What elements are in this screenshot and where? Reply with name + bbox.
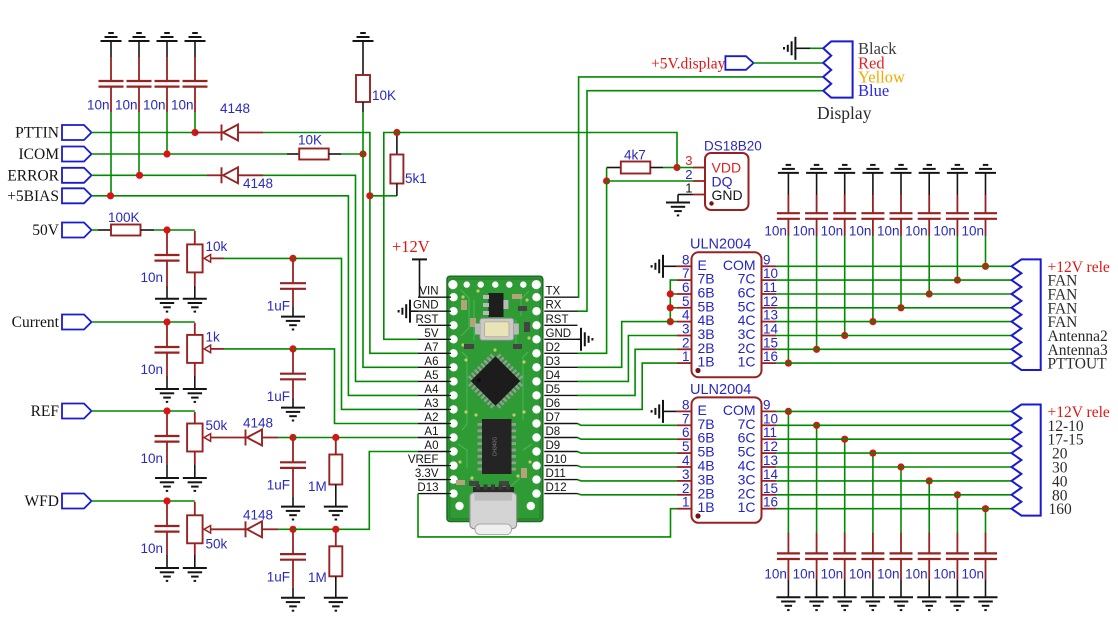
- svg-text:ERROR: ERROR: [7, 167, 59, 184]
- svg-text:9: 9: [763, 252, 771, 267]
- capacitor 10n (bottom bank col 2): [816, 533, 818, 554]
- wire ERROR diode to pin A5: [263, 175, 418, 381]
- diode 4148 on RV3 wiper: [210, 437, 246, 439]
- capacitor 1uF on RV4 output: [292, 532, 294, 554]
- svg-text:1k: 1k: [206, 329, 221, 344]
- node 1uF junction on RV4 output: [289, 526, 296, 533]
- wire Blue pin to U1 RX: [578, 91, 824, 312]
- wire R1 to A6 junction and down to pin A6: [362, 112, 364, 154]
- svg-text:A2: A2: [424, 412, 438, 424]
- wire U1 D10 to U4 pin 4: [578, 466, 677, 467]
- wires U4 outputs to band connector: [776, 410, 1012, 412]
- capacitor 10n C4 (input filter col x=195): [194, 57, 196, 81]
- U4 pin 5 stub (5B): [677, 452, 692, 454]
- svg-text:7: 7: [682, 411, 690, 426]
- wire bottom bank cap 4 to output row: [872, 453, 874, 532]
- svg-text:10: 10: [763, 411, 778, 426]
- svg-text:10n: 10n: [140, 451, 163, 466]
- ground below bottom bank cap 4: [861, 597, 885, 610]
- potentiometer RV2 1k: [194, 323, 196, 335]
- connector 50V: [62, 223, 92, 238]
- connector ERROR: [62, 168, 92, 183]
- node Current junction: [163, 318, 170, 325]
- capacitor 10n (bottom bank col 3): [844, 533, 846, 554]
- wire U1 D5 to U3 pin2: [578, 349, 677, 395]
- capacitor 10n (top bank col 2): [816, 195, 818, 213]
- ground below C7: [155, 478, 179, 491]
- svg-text:1B: 1B: [698, 499, 715, 515]
- svg-text:7: 7: [682, 266, 690, 281]
- svg-text:VREF: VREF: [408, 454, 439, 466]
- svg-text:10n: 10n: [877, 224, 900, 239]
- svg-text:10K: 10K: [372, 88, 396, 103]
- connector Current: [62, 315, 92, 330]
- svg-text:RST: RST: [546, 314, 569, 326]
- svg-text:1uF: 1uF: [267, 389, 290, 404]
- svg-text:15: 15: [763, 335, 778, 350]
- svg-text:4148: 4148: [243, 416, 273, 431]
- wire ERROR to diode: [92, 174, 208, 176]
- ground at U1 left GND pin: [399, 300, 410, 323]
- svg-text:D2: D2: [546, 342, 561, 354]
- svg-text:160: 160: [1049, 501, 1073, 518]
- ground below DS18B20: [666, 203, 690, 216]
- wire ICOM to series resistor: [92, 153, 288, 155]
- U3 pin 11 stub (6C): [762, 293, 777, 295]
- U4 pin 8 stub (E): [677, 410, 692, 412]
- node U3 pin6 junction: [667, 290, 674, 297]
- wire ground to Black pin: [810, 47, 823, 49]
- svg-text:1M: 1M: [308, 570, 327, 585]
- node DQ junction: [603, 177, 610, 184]
- svg-text:10n: 10n: [905, 567, 928, 582]
- svg-text:Current: Current: [12, 314, 60, 331]
- svg-text:GND: GND: [546, 328, 572, 340]
- svg-text:1C: 1C: [738, 354, 756, 370]
- svg-text:8: 8: [682, 252, 690, 267]
- node snubber junction: [841, 332, 848, 339]
- ground above C15 (top bank): [919, 165, 940, 173]
- ground at U3 pin 8 (E): [652, 255, 663, 278]
- capacitor 10n (bottom bank col 4): [872, 533, 874, 554]
- capacitor 10n (top bank col 8): [985, 195, 987, 213]
- connector WFD: [62, 494, 92, 509]
- wire U1 D4 to U3 pin3: [578, 336, 677, 382]
- ground G1 (top-left, above 10n cap): [101, 33, 122, 41]
- capacitor 10n (top bank col 3): [844, 195, 846, 213]
- ground above C13 (top bank): [862, 165, 883, 173]
- wire top bank cap 5 to output row: [900, 236, 902, 308]
- pin lead A3 (U1 left): [418, 408, 451, 410]
- pin lead RST (U1 right): [544, 324, 577, 326]
- wire U1 D13 to U4 pin 1: [418, 494, 677, 537]
- U4 pin 2 stub (2B): [677, 494, 692, 496]
- svg-text:GND: GND: [413, 300, 439, 312]
- capacitor 10n (top bank col 1): [787, 195, 789, 213]
- U4 pin 7 stub (7B): [677, 424, 692, 426]
- U3 pin 14 stub (3C): [762, 335, 777, 337]
- node snubber junction: [897, 463, 904, 470]
- svg-text:GND: GND: [712, 187, 743, 203]
- wire top bank cap 8 to output row: [985, 236, 987, 266]
- ground below bottom bank cap 6: [917, 597, 941, 610]
- ground below 1uF: [281, 507, 305, 520]
- wire U1 D3 to U3 pin4 group: [578, 322, 671, 368]
- pin lead 3.3V (U1 left): [418, 479, 451, 481]
- wire U1 D11 to U4 pin 3: [578, 480, 677, 481]
- svg-text:10: 10: [763, 266, 778, 281]
- svg-text:10n: 10n: [877, 567, 900, 582]
- resistor R7 4k7 (DQ pull-up): [607, 167, 621, 169]
- wire Current output to pin A2: [293, 349, 418, 424]
- ground below R6: [324, 598, 348, 611]
- pin lead A2 (U1 left): [418, 423, 451, 425]
- pin lead A5 (U1 left): [418, 380, 451, 382]
- svg-text:D7: D7: [546, 412, 561, 424]
- svg-text:4: 4: [682, 453, 690, 468]
- pin lead D12 (U1 right): [544, 493, 577, 495]
- svg-text:3.3V: 3.3V: [415, 468, 439, 480]
- node ERROR/C2 junction: [136, 172, 143, 179]
- svg-text:A0: A0: [424, 440, 438, 452]
- capacitor 10n C3 (input filter col x=167): [166, 57, 168, 81]
- connector PTTIN: [62, 125, 92, 140]
- node 1uF junction on RV3 output: [289, 434, 296, 441]
- ground below C6: [155, 389, 179, 402]
- svg-text:D12: D12: [546, 482, 567, 494]
- svg-text:10n: 10n: [849, 224, 872, 239]
- diode D2 4148 (ERROR clamp): [207, 174, 222, 176]
- svg-text:10n: 10n: [87, 98, 110, 113]
- svg-text:10K: 10K: [298, 133, 322, 148]
- svg-text:4: 4: [682, 308, 690, 323]
- svg-text:5V: 5V: [424, 328, 438, 340]
- ground above C17 (top bank): [975, 165, 996, 173]
- U4 pin 10 stub (7C): [762, 424, 777, 426]
- svg-text:10n: 10n: [793, 224, 816, 239]
- node +5BIAS/C1 junction: [107, 192, 114, 199]
- svg-text:+12V: +12V: [392, 237, 430, 256]
- svg-text:100K: 100K: [108, 210, 140, 225]
- pin 1 GND stub: [693, 194, 705, 196]
- wire PTTIN to diode node: [92, 132, 196, 134]
- svg-text:D8: D8: [546, 426, 561, 438]
- U4 pin 12 stub (5C): [762, 452, 777, 454]
- wire cap C3 down to input row: [166, 112, 168, 154]
- svg-text:10n: 10n: [140, 270, 163, 285]
- U3 pin 1 stub (1B): [677, 362, 692, 364]
- wire DS18B20 GND to ground: [678, 194, 693, 196]
- wire top bank cap 4 to output row: [872, 236, 874, 322]
- pin1 marker dot DS18B20: [709, 201, 713, 205]
- capacitor 1uF on RV3 output: [292, 441, 294, 463]
- node ICOM/C3 junction: [163, 150, 170, 157]
- IC U3 ULN2004 body: [692, 252, 762, 377]
- svg-text:A6: A6: [424, 356, 438, 368]
- capacitor C6 10n (input filter): [166, 325, 168, 347]
- capacitor 10n (top bank col 4): [872, 195, 874, 213]
- svg-text:50V: 50V: [32, 222, 60, 239]
- node 50V divider: [163, 226, 170, 233]
- svg-text:D6: D6: [546, 398, 561, 410]
- U3 pin 7 stub (7B): [677, 279, 692, 281]
- capacitor 10n (bottom bank col 1): [787, 533, 789, 554]
- U3 pin 4 stub (4B): [677, 321, 692, 323]
- svg-text:+5BIAS: +5BIAS: [7, 188, 59, 205]
- wire U1 D9 to U4 pin 5: [578, 452, 677, 454]
- U3 pin 13 stub (4C): [762, 321, 777, 323]
- svg-text:1B: 1B: [698, 354, 715, 370]
- wire top bank cap 3 to output row: [844, 236, 846, 336]
- ground G3 (top-left, above 10n cap): [157, 33, 178, 41]
- ground below bottom bank cap 2: [805, 597, 829, 610]
- pin lead GND (U1 left): [418, 310, 451, 312]
- node snubber junction: [926, 290, 933, 297]
- ground G5 above R1: [353, 33, 374, 41]
- capacitor 10n (bottom bank col 5): [900, 533, 902, 554]
- svg-text:A5: A5: [424, 370, 438, 382]
- node snubber junction: [897, 304, 904, 311]
- wire R7 to VDD node: [663, 167, 677, 169]
- Arduino Nano U1 (PCB module): [447, 276, 543, 534]
- node WFD junction: [163, 497, 170, 504]
- pin lead D7 (U1 right): [544, 423, 577, 425]
- U4 pin 6 stub (6B): [677, 438, 692, 440]
- U3 pin 6 stub (6B): [677, 293, 692, 295]
- connector REF: [62, 404, 92, 419]
- svg-text:50k: 50k: [206, 418, 228, 433]
- wire R4 to divider node: [154, 229, 195, 231]
- svg-text:PTTOUT: PTTOUT: [1048, 356, 1108, 373]
- svg-text:VIN: VIN: [419, 286, 438, 298]
- wire Yellow pin to U1 TX: [578, 77, 824, 297]
- svg-text:14: 14: [763, 322, 779, 337]
- pin lead D5 (U1 right): [544, 394, 577, 396]
- pin lead D2 (U1 right): [544, 352, 577, 354]
- pin 3 VDD stub: [693, 167, 705, 169]
- node VDD junction: [673, 164, 680, 171]
- svg-text:4k7: 4k7: [624, 148, 646, 163]
- svg-text:3: 3: [682, 322, 690, 337]
- wire diode to summing node: [278, 437, 293, 439]
- ground below RV3: [183, 478, 207, 491]
- capacitor 10n C1 (input filter col x=111): [110, 57, 112, 81]
- node 1uF junction on RV2 output: [289, 345, 296, 352]
- node snubber junction: [813, 422, 820, 429]
- wire top bank cap 6 to output row: [928, 236, 930, 294]
- node 1M junction (REF): [332, 434, 339, 441]
- node REF junction: [163, 407, 170, 414]
- svg-text:13: 13: [763, 308, 778, 323]
- pin lead A7 (U1 left): [418, 352, 451, 354]
- U3 pin 15 stub (2C): [762, 348, 777, 350]
- node PTTIN/C4 junction: [191, 129, 198, 136]
- capacitor 10n C2 (input filter col x=139): [138, 57, 140, 81]
- svg-text:1C: 1C: [738, 499, 756, 515]
- pin lead A1 (U1 left): [418, 437, 451, 439]
- node snubber junction: [926, 477, 933, 484]
- ground above C14 (top bank): [891, 165, 912, 173]
- svg-text:10n: 10n: [764, 567, 787, 582]
- svg-text:DS18B20: DS18B20: [704, 139, 762, 154]
- svg-text:10n: 10n: [143, 98, 166, 113]
- pin1 marker dot U3: [695, 368, 700, 373]
- ground below bottom bank cap 3: [833, 597, 857, 610]
- pin lead GND (U1 right): [544, 338, 577, 340]
- wire U1 D7 to U4 pin 7: [578, 424, 677, 426]
- wire A7 net to R-5k1 bottom: [370, 195, 397, 197]
- svg-text:A3: A3: [424, 398, 438, 410]
- svg-text:8: 8: [682, 397, 690, 412]
- pin lead D13 (U1 left): [418, 493, 451, 495]
- wire 50V output to pin A3: [293, 258, 418, 409]
- ground below C5: [155, 299, 179, 312]
- ground below 1uF: [281, 408, 305, 421]
- ground above C12 (top bank): [834, 165, 855, 173]
- capacitor C5 10n (input filter): [166, 233, 168, 255]
- pin lead D6 (U1 right): [544, 408, 577, 410]
- wires U3 outputs to relay connector: [776, 265, 1012, 267]
- ground G4 (top-left, above 10n cap): [185, 33, 206, 41]
- DS18B20 U2 body: [705, 153, 749, 210]
- pin lead D3 (U1 right): [544, 366, 577, 368]
- ground below RV1: [183, 299, 207, 312]
- U4 pin 3 stub (3B): [677, 480, 692, 482]
- svg-text:6: 6: [682, 280, 690, 295]
- svg-text:4148: 4148: [220, 101, 250, 116]
- wire WFD output to pin A0: [293, 452, 418, 530]
- svg-text:A1: A1: [424, 426, 438, 438]
- U3 pin 3 stub (3B): [677, 335, 692, 337]
- wire U3 pins 7-6-5-4 tie: [670, 280, 676, 322]
- svg-text:10n: 10n: [933, 567, 956, 582]
- svg-text:4148: 4148: [243, 176, 273, 191]
- pin lead A0 (U1 left): [418, 451, 451, 453]
- ground below RV4: [183, 568, 207, 581]
- wire bottom bank cap 7 to output row: [956, 495, 958, 533]
- wire REF output to pin A1: [293, 437, 418, 439]
- svg-text:15: 15: [763, 481, 778, 496]
- svg-text:ICOM: ICOM: [19, 146, 60, 163]
- node snubber junction: [954, 491, 961, 498]
- svg-text:ULN2004: ULN2004: [690, 237, 751, 253]
- wire U1 D8 to U4 pin 6: [578, 438, 677, 440]
- svg-text:A4: A4: [424, 384, 439, 396]
- capacitor C7 10n (input filter): [166, 414, 168, 436]
- svg-text:10n: 10n: [821, 567, 844, 582]
- ground below bottom bank cap 7: [945, 597, 969, 610]
- svg-text:1: 1: [682, 349, 690, 364]
- wire RV1 wiper to node: [210, 257, 224, 259]
- svg-text:11: 11: [763, 280, 777, 295]
- svg-text:10n: 10n: [793, 567, 816, 582]
- wire R2 to A6 node: [341, 153, 363, 155]
- resistor R5 1M (REF load): [335, 441, 337, 455]
- wire RV2 wiper to node: [210, 348, 224, 350]
- resistor R3 5k1 (A7 pull-up to 5V): [396, 134, 398, 155]
- resistor R4 100K (50V series): [92, 229, 99, 231]
- U3 pin 2 stub (2B): [677, 348, 692, 350]
- ground below 1uF: [281, 317, 305, 330]
- node U3 pin5 junction: [667, 304, 674, 311]
- pin lead A4 (U1 left): [418, 394, 451, 396]
- svg-text:13: 13: [763, 453, 778, 468]
- wire +5BIAS to pin A4: [92, 196, 419, 396]
- node snubber junction: [954, 277, 961, 284]
- wire REF to divider: [92, 410, 195, 412]
- connector Display (4-pin comb): [823, 41, 852, 97]
- capacitor 1uF on RV2 output: [292, 352, 294, 374]
- ground above C11 (top bank): [806, 165, 827, 173]
- svg-text:WFD: WFD: [25, 493, 59, 510]
- pin lead TX (U1 right): [544, 296, 577, 298]
- output comb connector (top bank): [1012, 259, 1041, 370]
- svg-text:10n: 10n: [764, 224, 787, 239]
- wire top bank cap 1 to output row: [787, 236, 789, 363]
- capacitor 10n (top bank col 5): [900, 195, 902, 213]
- pin lead D9 (U1 right): [544, 451, 577, 453]
- ground at Display Black pin: [784, 37, 795, 60]
- svg-text:1uF: 1uF: [267, 478, 290, 493]
- svg-text:10n: 10n: [849, 567, 872, 582]
- wire cap C2 down to input row: [138, 112, 140, 175]
- svg-text:2: 2: [682, 335, 690, 350]
- svg-text:4148: 4148: [243, 507, 273, 522]
- U3 pin 10 stub (7C): [762, 279, 777, 281]
- wire DQ node down to U1 D2: [578, 181, 607, 353]
- wire Current to divider: [92, 321, 195, 323]
- node snubber junction: [982, 505, 989, 512]
- node 5k1 top junction on 5V rail: [393, 129, 400, 136]
- potentiometer RV4 50k: [194, 502, 196, 516]
- pin lead D8 (U1 right): [544, 437, 577, 439]
- svg-text:12: 12: [763, 439, 778, 454]
- svg-text:10n: 10n: [961, 567, 984, 582]
- svg-text:5k1: 5k1: [405, 171, 427, 186]
- svg-text:3: 3: [685, 153, 692, 168]
- capacitor 10n (top bank col 6): [928, 195, 930, 213]
- svg-text:PTTIN: PTTIN: [15, 125, 59, 142]
- node snubber junction: [982, 263, 989, 270]
- svg-text:D9: D9: [546, 440, 561, 452]
- svg-text:16: 16: [763, 495, 778, 510]
- ground G2 (top-left, above 10n cap): [129, 33, 150, 41]
- diode 4148 on RV4 wiper: [210, 528, 246, 530]
- svg-text:50k: 50k: [206, 536, 228, 551]
- ground below 1uF: [281, 598, 305, 611]
- svg-text:Display: Display: [817, 103, 872, 123]
- svg-text:D5: D5: [546, 384, 561, 396]
- ground below RV2: [183, 389, 207, 402]
- resistor R6 1M (WFD load): [335, 532, 337, 546]
- wire diode to summing node: [278, 528, 293, 530]
- svg-text:RX: RX: [546, 300, 562, 312]
- svg-text:1uF: 1uF: [267, 569, 290, 584]
- ground below bottom bank cap 8: [974, 597, 998, 610]
- U4 pin 13 stub (4C): [762, 466, 777, 468]
- wire R7 left to DQ node: [606, 168, 608, 182]
- ground at U1 right GND pin: [581, 328, 592, 351]
- wire +5V.display to Red pin: [754, 62, 824, 64]
- capacitor 10n (bottom bank col 7): [956, 533, 958, 554]
- ground below bottom bank cap 1: [776, 597, 800, 610]
- potentiometer RV1 10k: [194, 231, 196, 245]
- ground below C8: [155, 568, 179, 581]
- pin lead A6 (U1 left): [418, 366, 451, 368]
- U3 pin 12 stub (5C): [762, 307, 777, 309]
- svg-text:D3: D3: [546, 356, 561, 368]
- wire U1 D12 to U4 pin 2: [578, 494, 677, 495]
